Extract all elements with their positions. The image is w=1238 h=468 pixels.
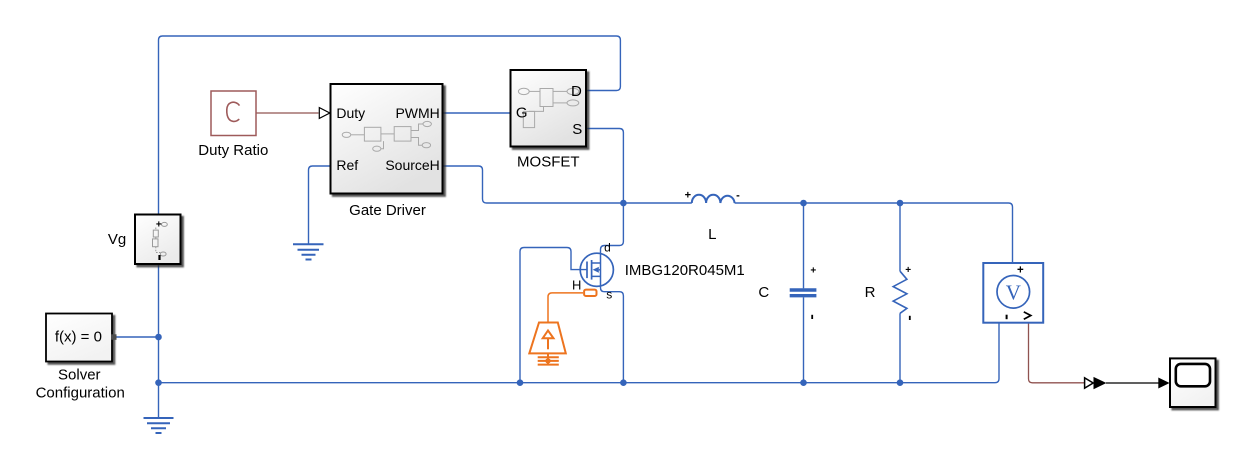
wire Solver Configuration to trunk — [117, 336, 159, 338]
svg-text:-: - — [736, 190, 740, 202]
ground (electrical reference, bottom left) — [144, 418, 174, 433]
svg-text:Vg: Vg — [108, 231, 126, 248]
junction capacitor/switch rail — [800, 200, 807, 207]
junction source/bottom rail — [620, 379, 627, 386]
thermal reference block (orange) — [529, 323, 566, 365]
svg-text:Gate Driver: Gate Driver — [349, 202, 426, 219]
wire switch node down to Q1 drain — [601, 203, 624, 253]
svg-text:R: R — [865, 284, 876, 301]
transistor Q1 IMBG120R045M1 (SiC MOSFET symbol) — [580, 253, 613, 286]
junction gate wire/bottom rail — [517, 379, 524, 386]
voltage source Vg — [135, 215, 181, 265]
svg-text:MOSFET: MOSFET — [517, 154, 580, 171]
svg-text:s: s — [606, 287, 612, 301]
wire to Scope (signal) — [1106, 382, 1159, 384]
wire thermal H to thermal reference — [548, 293, 583, 323]
constant block Duty Ratio — [211, 91, 256, 136]
svg-text:Duty: Duty — [336, 105, 365, 121]
inductor L coil — [692, 195, 735, 203]
svg-text:PWMH: PWMH — [395, 105, 439, 121]
svg-text:+: + — [685, 190, 691, 202]
svg-text:V: V — [1006, 281, 1021, 305]
svg-text:Configuration: Configuration — [36, 384, 125, 401]
svg-text:Duty Ratio: Duty Ratio — [198, 142, 268, 159]
svg-text:+: + — [810, 266, 816, 277]
wire Gate Driver PWMH to MOSFET G — [443, 112, 511, 114]
svg-text:D: D — [571, 83, 582, 100]
solver configuration block — [46, 314, 117, 362]
svg-text:+: + — [156, 219, 162, 230]
junction capacitor/bottom rail — [800, 379, 807, 386]
svg-text:+: + — [905, 265, 911, 276]
wire Gate Driver SourceH to switch node — [443, 166, 624, 203]
wire MOSFET S down to switch node — [586, 129, 623, 204]
ground (Gate Driver Ref) — [293, 244, 324, 259]
wire capacitor branch — [803, 203, 805, 383]
junction resistor/switch rail — [897, 200, 904, 207]
wire Vg+ to MOSFET D (top route) — [159, 36, 621, 215]
PS-Simulink converter arrows — [1085, 378, 1094, 388]
subsystem MOSFET — [511, 70, 587, 147]
svg-text:L: L — [708, 226, 716, 243]
wire Gate Driver Ref to ground — [309, 166, 331, 244]
svg-text:+: + — [1017, 265, 1024, 277]
capacitor C plates — [790, 290, 817, 296]
wire Q1 source to bottom rail — [601, 286, 624, 382]
svg-text:f(x) = 0: f(x) = 0 — [55, 329, 102, 346]
svg-text:d: d — [604, 241, 611, 255]
junction solver/trunk — [155, 334, 162, 341]
wire voltmeter output (physical signal) — [1029, 323, 1085, 383]
wire Duty Ratio to Gate Driver (physical signal) — [256, 112, 319, 114]
svg-text:Solver: Solver — [58, 367, 101, 384]
svg-text:Ref: Ref — [336, 157, 358, 173]
junction switch node — [620, 200, 627, 207]
subsystem Gate Driver — [331, 84, 443, 194]
svg-text:C: C — [758, 284, 769, 301]
resistor R zigzag — [893, 271, 907, 313]
voltmeter block — [983, 263, 1043, 323]
junction trunk/bottom rail — [155, 379, 162, 386]
svg-text:SourceH: SourceH — [385, 157, 439, 173]
thermal port H marker — [584, 290, 596, 296]
input arrow into Gate Driver Duty — [319, 108, 330, 119]
wire Vg- trunk down to ground — [158, 264, 160, 418]
wire inductor to voltmeter + — [735, 203, 1013, 276]
svg-text:G: G — [516, 105, 528, 122]
wire resistor branch — [899, 203, 901, 383]
svg-text:S: S — [572, 121, 582, 138]
scope block — [1170, 358, 1216, 407]
wire switch node to inductor — [623, 202, 691, 204]
junction resistor/bottom rail — [897, 379, 904, 386]
wire Q1 gate to bottom rail — [520, 248, 587, 383]
svg-text:IMBG120R045M1: IMBG120R045M1 — [625, 262, 745, 279]
wire bottom rail to voltmeter - — [159, 308, 1014, 383]
svg-text:H: H — [572, 277, 581, 292]
